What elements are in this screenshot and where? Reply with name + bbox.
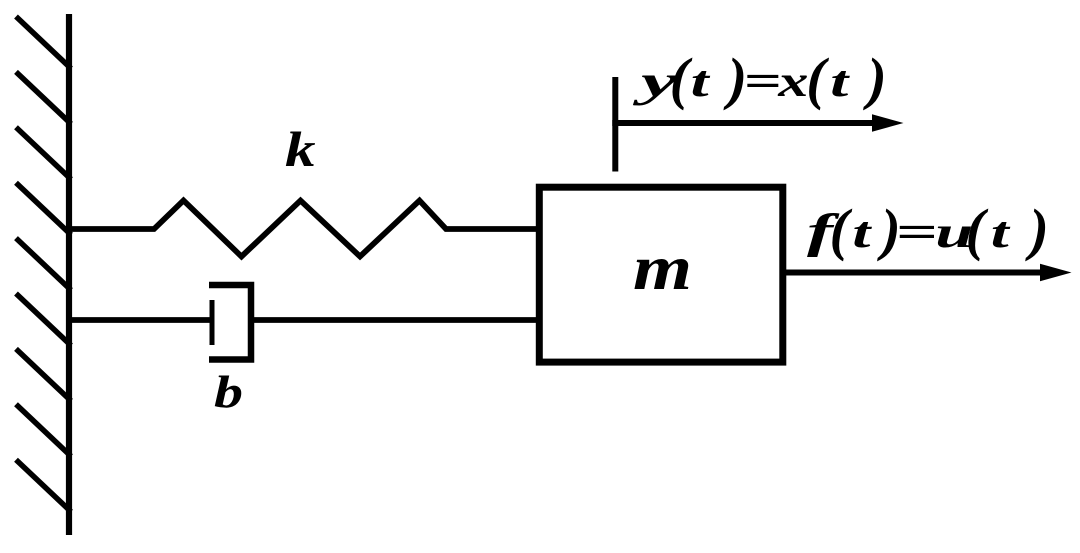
- wall hatch 3: [16, 127, 71, 179]
- wall hatch 7: [16, 349, 71, 401]
- wall hatch 9: [16, 460, 71, 512]
- damper piston: [210, 300, 215, 345]
- force arrow head: [1040, 264, 1072, 282]
- displacement arrow shaft: [612, 120, 876, 126]
- damper left rod: [69, 317, 212, 323]
- wall hatch 2: [16, 72, 71, 124]
- wall hatch 4: [16, 183, 71, 235]
- svg-text:k: k: [285, 121, 316, 177]
- wall hatch 6: [16, 294, 71, 346]
- spring k: [69, 201, 539, 257]
- force arrow shaft: [783, 270, 1043, 276]
- displacement arrow head: [872, 114, 904, 132]
- damper cylinder: [209, 285, 251, 360]
- wall hatch 8: [16, 404, 71, 456]
- wall hatch 1: [16, 17, 71, 69]
- wall hatch 5: [16, 238, 71, 290]
- wall: [66, 14, 72, 535]
- damper right rod: [251, 317, 539, 323]
- svg-text:b: b: [214, 367, 243, 417]
- mass m block: [539, 187, 783, 362]
- svg-text:m: m: [633, 232, 692, 303]
- displacement reference tick: [612, 77, 618, 172]
